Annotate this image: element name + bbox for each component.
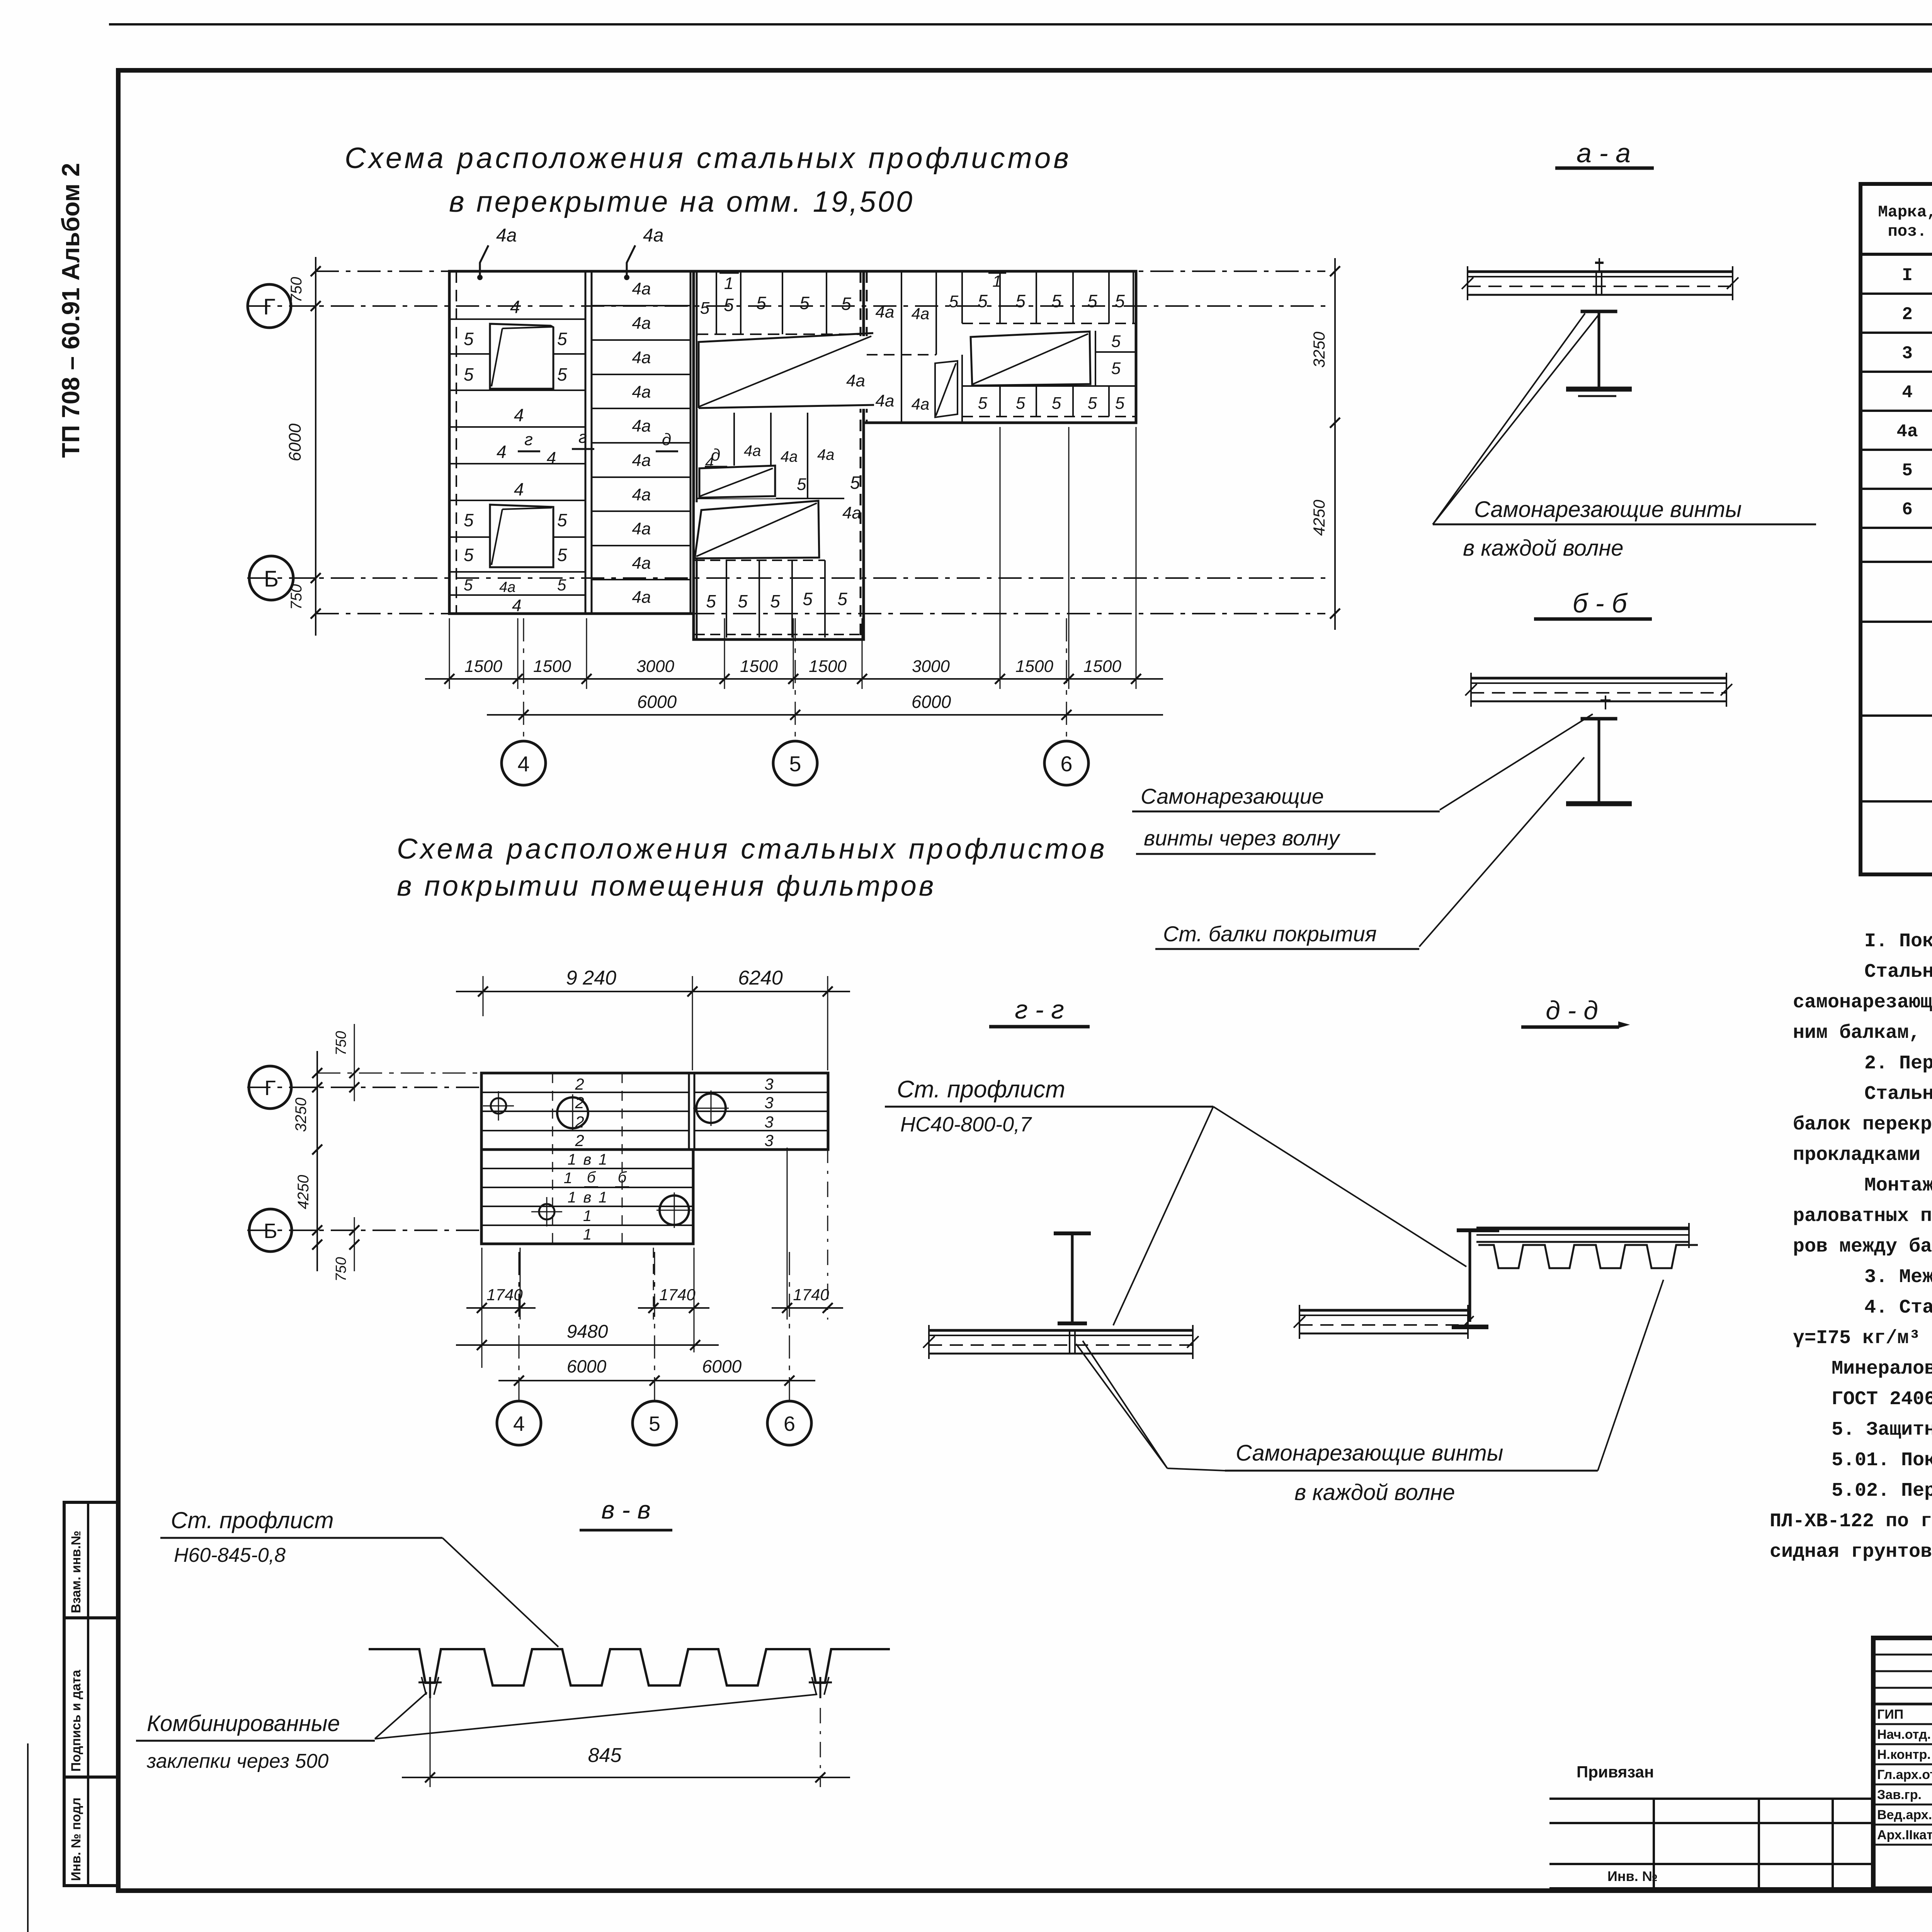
svg-text:1: 1	[599, 1189, 607, 1206]
svg-text:ГОСТ 24064-80, наносимой мазка: ГОСТ 24064-80, наносимой мазками на боко…	[1832, 1388, 1932, 1410]
svg-text:ПЛ-ХВ-122 по грунтовке АК-0138: ПЛ-ХВ-122 по грунтовке АК-0138, для пове…	[1770, 1510, 1932, 1532]
svg-text:5: 5	[1111, 332, 1121, 351]
plan1 strip C small cut sheet	[699, 466, 776, 498]
g-g beam	[1054, 1231, 1091, 1235]
svg-text:Самонарезающие винты: Самонарезающие винты	[1236, 1440, 1503, 1466]
plan2 upper divider	[688, 1073, 690, 1150]
svg-text:5: 5	[464, 364, 474, 384]
svg-text:в покрытии помещения фил: в покрытии помещения фильтров	[397, 870, 936, 902]
svg-text:4: 4	[512, 596, 521, 615]
svg-text:5: 5	[557, 545, 567, 565]
svg-text:4а: 4а	[632, 554, 651, 573]
svg-text:4: 4	[1902, 383, 1913, 403]
svg-text:5: 5	[1016, 394, 1026, 413]
vertical dimension 3250/4250	[1334, 258, 1336, 630]
a-a deck	[1468, 270, 1733, 273]
svg-text:Н.контр.: Н.контр.	[1877, 1747, 1931, 1762]
margin box Inv No podl	[64, 1777, 118, 1886]
v-v rivet leaders	[375, 1692, 427, 1739]
svg-text:1: 1	[568, 1189, 576, 1206]
svg-text:5: 5	[841, 294, 851, 314]
svg-text:3250: 3250	[293, 1098, 310, 1132]
title block outer	[1873, 1638, 1932, 1889]
plan2 column axis circles 4 5 6	[519, 1252, 520, 1401]
svg-text:6: 6	[1902, 500, 1913, 520]
svg-text:5: 5	[649, 1412, 660, 1435]
svg-text:Схема расположения стальных пр: Схема расположения стальных профлистов	[345, 142, 1071, 175]
svg-text:5: 5	[1052, 394, 1061, 413]
svg-text:6: 6	[1060, 752, 1072, 776]
svg-text:6000: 6000	[912, 692, 951, 712]
svg-text:1: 1	[583, 1226, 592, 1243]
svg-text:в каждой волне: в каждой волне	[1294, 1480, 1455, 1505]
plan1 block D outline	[864, 271, 1136, 423]
paper edge left partial	[27, 1743, 29, 1932]
svg-text:Вед.арх.: Вед.арх.	[1877, 1808, 1932, 1822]
svg-text:Привязан: Привязан	[1577, 1763, 1654, 1781]
svg-text:Марка,: Марка,	[1878, 203, 1932, 221]
plan1 block D right 5 cells	[1095, 331, 1096, 386]
svg-text:3: 3	[764, 1131, 773, 1150]
svg-text:5: 5	[1088, 394, 1097, 413]
svg-text:4а: 4а	[842, 503, 861, 522]
d-d top deck with profile	[1476, 1227, 1689, 1230]
svg-text:Зав.гр.: Зав.гр.	[1877, 1787, 1922, 1802]
svg-text:ГИП: ГИП	[1877, 1707, 1903, 1722]
callout 4a leader 2	[627, 245, 635, 277]
svg-text:2. Перекрытие.: 2. Перекрытие.	[1864, 1053, 1932, 1075]
svg-text:2: 2	[575, 1075, 584, 1093]
b-b deck	[1471, 677, 1726, 680]
svg-text:4а: 4а	[781, 448, 798, 465]
plan2 left vertical dimension	[316, 1051, 318, 1271]
v-v profiled sheet	[369, 1649, 890, 1685]
svg-text:1740: 1740	[486, 1286, 523, 1304]
svg-text:5: 5	[850, 473, 860, 493]
svg-text:Н60-845-0,8: Н60-845-0,8	[174, 1544, 286, 1566]
svg-text:4а: 4а	[817, 446, 835, 463]
svg-text:Комбинированные: Комбинированные	[147, 1711, 340, 1736]
plan1 strip A cut sheet top	[490, 321, 553, 389]
svg-text:4а: 4а	[632, 485, 651, 504]
svg-text:Инв. №: Инв. №	[1607, 1868, 1658, 1884]
plan1 block D small cut sheet	[935, 361, 957, 417]
plan1 strips A B outline	[449, 271, 694, 614]
svg-text:4: 4	[510, 297, 520, 317]
svg-text:5: 5	[770, 591, 780, 611]
axis circle G	[248, 284, 291, 328]
svg-text:1: 1	[568, 1151, 576, 1168]
plan2 axis B line	[247, 1230, 481, 1231]
svg-text:4: 4	[514, 479, 524, 499]
d-d leaders to screws	[1076, 1344, 1167, 1468]
b-b screw mark	[1600, 699, 1611, 702]
svg-text:Подпись и дата: Подпись и дата	[69, 1669, 83, 1772]
plan1 top edge axis line	[316, 270, 1325, 272]
svg-text:5: 5	[706, 591, 716, 611]
svg-text:3: 3	[764, 1094, 773, 1112]
plan2 lower rows	[481, 1168, 693, 1169]
svg-text:6: 6	[784, 1412, 795, 1435]
plan1 strip C top band	[697, 333, 861, 335]
svg-text:1: 1	[599, 1151, 607, 1168]
svg-text:в каждой волне: в каждой волне	[1463, 536, 1624, 561]
svg-text:5: 5	[1051, 291, 1061, 311]
plan1 strip C big cut sheet	[697, 336, 873, 409]
svg-text:750: 750	[288, 277, 305, 303]
svg-text:845: 845	[588, 1744, 622, 1767]
svg-text:4а: 4а	[632, 588, 651, 607]
svg-text:Гл.арх.отд.: Гл.арх.отд.	[1877, 1767, 1932, 1782]
plan2 top dimension 9240/6240	[483, 976, 484, 1016]
svg-text:Г: Г	[263, 294, 275, 320]
svg-text:4а: 4а	[632, 383, 651, 401]
svg-text:д: д	[662, 430, 671, 449]
axis line B	[247, 577, 1325, 579]
svg-text:4а: 4а	[876, 391, 895, 410]
svg-text:6000: 6000	[286, 423, 304, 461]
a-a beam	[1581, 310, 1617, 313]
axis circle B	[249, 556, 293, 600]
a-a leaders	[1433, 313, 1585, 524]
b-b leader 1	[1440, 714, 1593, 810]
svg-text:4а: 4а	[912, 304, 930, 323]
svg-text:4: 4	[514, 405, 524, 425]
svg-text:5.02. Перекрытие – для лицевых: 5.02. Перекрытие – для лицевых наружных …	[1832, 1480, 1932, 1502]
svg-text:4а: 4а	[846, 371, 865, 390]
svg-text:д: д	[711, 446, 720, 464]
svg-text:5: 5	[803, 589, 813, 609]
v-v dimension 845	[430, 1698, 431, 1787]
svg-text:750: 750	[333, 1257, 349, 1281]
svg-text:самонарезающими винтами с упло: самонарезающими винтами с уплотнительным…	[1793, 992, 1932, 1014]
spec table row lines	[1861, 293, 1932, 295]
svg-text:5: 5	[1015, 291, 1026, 311]
svg-text:в: в	[583, 1189, 592, 1206]
svg-text:5: 5	[464, 576, 473, 594]
svg-text:Ст. балки покрытия: Ст. балки покрытия	[1163, 922, 1377, 946]
svg-text:3250: 3250	[1310, 332, 1328, 368]
plan2 upper block outline	[481, 1073, 828, 1150]
svg-text:Взам. инв.№: Взам. инв.№	[69, 1531, 83, 1613]
svg-text:5.01. Покрытие – см.таблицу вн: 5.01. Покрытие – см.таблицу внутренней о…	[1832, 1449, 1932, 1471]
plan2 lower block outline	[481, 1150, 693, 1244]
plan1 strip C bottom row of 5 panels	[695, 560, 825, 561]
plan2 upper rows	[481, 1092, 689, 1093]
svg-text:4: 4	[497, 442, 507, 462]
svg-text:ров между балками из листа дли: ров между балками из листа длиной 3000 м…	[1793, 1236, 1932, 1258]
svg-text:6000: 6000	[702, 1356, 742, 1376]
svg-text:3: 3	[1902, 344, 1913, 364]
plan1 strip C outline	[694, 271, 864, 639]
svg-text:5: 5	[724, 295, 734, 315]
svg-text:5: 5	[738, 591, 748, 611]
svg-text:9 240: 9 240	[566, 967, 616, 989]
svg-text:3000: 3000	[636, 657, 674, 676]
g-g deck	[929, 1329, 1193, 1332]
svg-text:4: 4	[547, 449, 556, 468]
svg-text:Б: Б	[264, 566, 279, 592]
axis line G	[247, 305, 1325, 307]
svg-text:4250: 4250	[1310, 500, 1328, 536]
svg-text:Ст. профлист: Ст. профлист	[897, 1076, 1065, 1103]
margin box Vzam inv	[64, 1502, 118, 1618]
svg-text:ним балкам, через волну – к пр: ним балкам, через волну – к промежуточны…	[1793, 1022, 1932, 1044]
svg-text:5: 5	[1115, 291, 1125, 311]
svg-text:5: 5	[700, 299, 710, 318]
svg-text:г: г	[524, 430, 533, 449]
left vertical dimension line 750/6000/750	[315, 257, 316, 636]
svg-text:балок перекрытия самонарезающи: балок перекрытия самонарезающими винтами…	[1793, 1114, 1932, 1136]
svg-text:5: 5	[756, 293, 766, 313]
svg-text:4а: 4а	[499, 579, 515, 595]
svg-text:2: 2	[1902, 304, 1913, 325]
svg-text:9480: 9480	[567, 1321, 608, 1342]
svg-text:1740: 1740	[793, 1286, 829, 1304]
svg-text:3000: 3000	[912, 657, 950, 676]
svg-text:1740: 1740	[659, 1286, 696, 1304]
g-g leaders from label	[1113, 1107, 1213, 1325]
svg-text:5: 5	[1111, 359, 1121, 378]
svg-text:4а: 4а	[632, 451, 651, 470]
svg-text:5: 5	[978, 394, 988, 413]
svg-text:750: 750	[333, 1031, 349, 1055]
svg-text:3: 3	[764, 1113, 773, 1131]
svg-text:Стальные профилированные листы: Стальные профилированные листы крепить к…	[1864, 1083, 1932, 1105]
svg-text:сидная грунтовка ЭП-0140.: сидная грунтовка ЭП-0140.	[1770, 1541, 1932, 1563]
svg-text:1500: 1500	[740, 657, 778, 676]
svg-text:I. Покрытие: I. Покрытие	[1864, 930, 1932, 952]
svg-text:2: 2	[575, 1131, 584, 1150]
svg-text:г: г	[578, 428, 587, 447]
svg-text:4а: 4а	[632, 519, 651, 538]
plan1 block D big cut sheet	[968, 331, 1092, 387]
svg-text:б - б: б - б	[1573, 588, 1628, 618]
d-d leader right	[1598, 1280, 1663, 1471]
svg-text:5: 5	[789, 752, 801, 776]
plan1 strip B row lines and 4a labels	[592, 305, 690, 306]
plan1 strip divider C/D dashed	[860, 271, 862, 639]
spec table header row	[1861, 253, 1932, 256]
plan1 strip A cut sheet bottom	[490, 502, 553, 567]
svg-text:поз.: поз.	[1888, 222, 1927, 241]
v-v leader	[442, 1538, 558, 1647]
spec table outer border	[1861, 184, 1932, 874]
svg-text:раловатных плит. Профлисты поз: раловатных плит. Профлисты поз.4а резать…	[1793, 1205, 1932, 1227]
svg-text:1: 1	[564, 1170, 572, 1187]
svg-text:5: 5	[464, 545, 474, 565]
svg-text:Самонарезающие: Самонарезающие	[1141, 784, 1324, 808]
svg-text:Самонарезающие винты: Самонарезающие винты	[1474, 497, 1742, 522]
svg-text:750: 750	[288, 584, 305, 610]
plan1 strip divider A/B	[585, 271, 587, 614]
svg-text:5: 5	[1115, 394, 1125, 413]
svg-text:Схема расположения стальных пр: Схема расположения стальных профлистов	[397, 833, 1107, 865]
plan1 dimension chain 1500s	[425, 678, 1163, 680]
svg-text:НС40-800-0,7: НС40-800-0,7	[900, 1113, 1032, 1136]
svg-text:Б: Б	[264, 1219, 277, 1243]
margin box Podpis i data	[64, 1618, 118, 1777]
plan1 block D tall 4a panels upper	[901, 271, 902, 423]
svg-text:5: 5	[978, 291, 988, 311]
svg-text:1500: 1500	[1083, 657, 1121, 676]
svg-text:4а: 4а	[912, 395, 930, 413]
callout 4a leader 1	[480, 245, 488, 277]
plan2 6000 dimension	[498, 1380, 815, 1381]
b-b beam	[1581, 717, 1617, 721]
d-d column beam	[1469, 1230, 1471, 1322]
svg-text:Монтаж профилированных листов: Монтаж профилированных листов производит…	[1864, 1175, 1932, 1197]
svg-text:4: 4	[513, 1412, 525, 1435]
plan1 strip C 4a panel band	[733, 413, 735, 498]
svg-text:1500: 1500	[464, 657, 502, 676]
d-d left deck	[1299, 1309, 1468, 1312]
svg-text:3: 3	[764, 1075, 773, 1093]
v-v rivet marks	[418, 1682, 442, 1684]
svg-text:4а: 4а	[632, 279, 651, 298]
svg-text:в: в	[583, 1151, 592, 1168]
svg-text:5: 5	[797, 475, 806, 494]
attachment table	[1549, 1798, 1873, 1800]
svg-text:4а: 4а	[632, 314, 651, 333]
plan1 strip divider B/C	[690, 271, 692, 614]
svg-text:Арх.IIкат.: Арх.IIкат.	[1877, 1828, 1932, 1842]
plan2 axis circle B	[249, 1209, 292, 1252]
svg-text:Г: Г	[264, 1077, 276, 1100]
svg-text:5: 5	[1902, 461, 1913, 481]
svg-text:д - д: д - д	[1546, 996, 1598, 1025]
plan2 axis circle G	[249, 1066, 291, 1109]
a-a screw mark	[1595, 262, 1604, 264]
svg-text:4а: 4а	[632, 348, 651, 367]
svg-text:4а: 4а	[876, 303, 895, 321]
svg-text:1: 1	[583, 1207, 592, 1225]
svg-text:3. Между собой листы крепить к: 3. Между собой листы крепить комбинирова…	[1864, 1266, 1932, 1288]
plan2 1740 dimensions	[466, 1307, 536, 1309]
svg-text:Ст. профлист: Ст. профлист	[171, 1507, 334, 1533]
svg-text:в - в: в - в	[601, 1495, 651, 1524]
svg-text:4а: 4а	[643, 225, 663, 246]
plan2 vent circles	[491, 1098, 506, 1114]
plan1 block D bottom 5 row	[962, 385, 1136, 387]
svg-text:4а: 4а	[744, 442, 761, 459]
plan1 block D top row 5 panels	[961, 271, 963, 323]
svg-text:Нач.отд.: Нач.отд.	[1877, 1727, 1931, 1742]
svg-text:1: 1	[992, 272, 1001, 290]
svg-text:Стальные профилированные листы: Стальные профилированные листы крепить к…	[1864, 961, 1932, 983]
svg-text:5: 5	[557, 329, 567, 349]
svg-text:г - г: г - г	[1015, 995, 1064, 1024]
svg-text:γ=I75 кг/м³ ГОСТ 9573-82 толщи: γ=I75 кг/м³ ГОСТ 9573-82 толщиной 40 мм …	[1793, 1327, 1932, 1349]
plan1 strip A row lines and labels	[449, 318, 585, 320]
svg-text:винты через волну: винты через волну	[1144, 826, 1340, 850]
svg-text:заклепки через 500: заклепки через 500	[146, 1750, 328, 1772]
svg-text:I: I	[1902, 265, 1913, 286]
plan1 column axis circles 4 5 6	[523, 618, 524, 741]
plan2 internal dashed columns	[552, 1073, 553, 1244]
svg-text:1500: 1500	[1015, 657, 1053, 676]
plan2 axis G line	[247, 1087, 481, 1088]
svg-text:б: б	[587, 1169, 596, 1186]
svg-text:4. Стальные стойки и балки пер: 4. Стальные стойки и балки перекрытия ут…	[1864, 1297, 1932, 1319]
plan1 dimension chain 6000s	[487, 714, 1163, 716]
svg-text:а - а: а - а	[1577, 138, 1631, 168]
svg-text:в перекрытие на отм. 19,500: в перекрытие на отм. 19,500	[449, 185, 914, 218]
svg-text:ТП 708 – 60.91 Альбом 2: ТП 708 – 60.91 Альбом 2	[57, 163, 85, 458]
svg-text:5: 5	[557, 510, 567, 530]
svg-text:5: 5	[557, 364, 567, 384]
svg-text:1500: 1500	[809, 657, 847, 676]
svg-text:Минераловатные плиты приклеить: Минераловатные плиты приклеить кумаронов…	[1832, 1358, 1932, 1380]
svg-text:4а: 4а	[632, 417, 651, 435]
svg-text:5: 5	[464, 510, 474, 530]
svg-text:5: 5	[949, 292, 959, 311]
plan1 strip C big lower cut sheet	[695, 502, 819, 558]
plan1 bottom edge axis line	[316, 613, 1325, 614]
svg-text:6000: 6000	[637, 692, 677, 712]
plan2 9480 dimension	[456, 1344, 719, 1346]
svg-text:1: 1	[724, 274, 733, 293]
d-d profiled sheet waves	[1478, 1245, 1698, 1268]
b-b leader 2	[1419, 757, 1584, 947]
svg-text:6240: 6240	[738, 967, 783, 989]
svg-text:6000: 6000	[567, 1356, 607, 1376]
svg-text:4: 4	[517, 752, 529, 776]
paper edge top	[109, 23, 1932, 26]
svg-text:5. Защитно-декоративное покрыт: 5. Защитно-декоративное покрытие для ста…	[1832, 1419, 1932, 1441]
svg-text:5: 5	[557, 576, 566, 594]
svg-text:4250: 4250	[295, 1175, 312, 1209]
svg-text:4а: 4а	[496, 225, 517, 246]
svg-text:прокладками из бакелизированно: прокладками из бакелизированной фанеры в…	[1793, 1144, 1932, 1166]
svg-text:1500: 1500	[533, 657, 571, 676]
svg-text:5: 5	[799, 293, 810, 313]
svg-text:4а: 4а	[1896, 422, 1918, 442]
svg-text:5: 5	[464, 329, 474, 349]
svg-text:Инв. № подл: Инв. № подл	[69, 1798, 83, 1881]
svg-text:5: 5	[1087, 291, 1097, 311]
svg-text:5: 5	[837, 589, 847, 609]
